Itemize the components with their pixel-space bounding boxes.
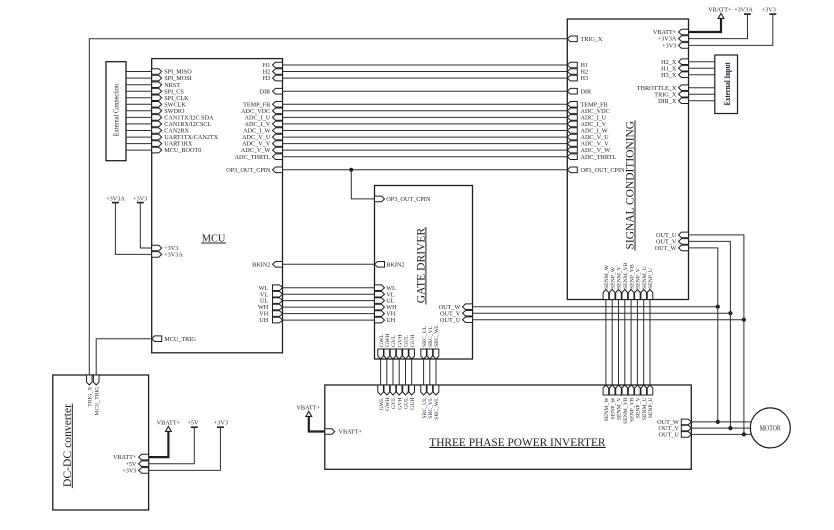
wire OUT_V (gate driver to node) — [473, 312, 731, 314]
pin +3V3 (SC) — [662, 43, 688, 50]
pin SENM_V (SC) — [616, 265, 623, 299]
svg-text:UH: UH — [386, 317, 395, 324]
svg-text:OUT_U: OUT_U — [659, 432, 680, 439]
wire ADC_V_W — [283, 149, 568, 151]
wire OUT_W (gate driver to node) — [473, 306, 718, 308]
svg-text:+3V3: +3V3 — [122, 468, 136, 475]
block DC-DC converter — [53, 375, 149, 510]
pin SENM_VB (INVERTER) — [622, 385, 629, 424]
pin VL (GATE DRIVER) — [375, 291, 395, 298]
wire SRC_VL — [429, 359, 431, 385]
pin THROTTLE_X (SC) — [637, 85, 689, 92]
svg-text:SRC_VL: SRC_VL — [428, 325, 434, 347]
pin MCU_BOOT0 (MCU) — [152, 147, 202, 154]
wire TRIG_X — [89, 39, 567, 375]
pin UART1RX (MCU) — [152, 141, 193, 148]
pin GWL (GATE DRIVER) — [378, 334, 385, 359]
pin WH (MCU) — [258, 304, 283, 311]
svg-text:SENP_W: SENP_W — [610, 397, 616, 420]
svg-text:SENM_VB: SENM_VB — [623, 262, 629, 289]
svg-text:ADC_THRTL: ADC_THRTL — [581, 154, 617, 161]
pin GVL (INVERTER) — [390, 385, 397, 409]
pin SENM_W (SC) — [603, 264, 610, 299]
svg-text:SENP_U: SENP_U — [648, 268, 654, 289]
pin VH (MCU) — [259, 311, 282, 318]
svg-text:+3V3A: +3V3A — [734, 6, 753, 13]
junction OUT_U lower — [742, 432, 746, 436]
pin SENM_VB (SC) — [622, 262, 629, 299]
svg-text:MCU_TRIG: MCU_TRIG — [94, 387, 100, 416]
svg-text:BKIN2: BKIN2 — [252, 261, 270, 268]
svg-text:GWL: GWL — [379, 334, 385, 347]
pin SPI_MOSI (MCU) — [152, 75, 192, 82]
svg-text:GVH: GVH — [397, 335, 403, 347]
svg-text:OUT_W: OUT_W — [655, 245, 677, 252]
svg-text:TRIG_X: TRIG_X — [581, 36, 604, 43]
pin UL (MCU) — [260, 298, 283, 305]
pin TRIG_X (SC) — [654, 91, 688, 98]
pin H1_X (SC) — [661, 65, 688, 72]
wire OUT_V (vertical to motor net) — [729, 313, 731, 428]
pin GWH (GATE DRIVER) — [384, 333, 391, 359]
pin GWH (INVERTER) — [384, 385, 391, 411]
pin ADC_VDC (SC) — [567, 108, 609, 115]
wire TRIG_X — [689, 93, 715, 95]
pin UH (MCU) — [259, 317, 282, 324]
pin OUT_W (INVERTER) — [657, 419, 691, 426]
pin SENP_V (SC) — [635, 267, 642, 299]
svg-text:H3: H3 — [263, 75, 271, 82]
pin DIR (MCU) — [260, 88, 283, 95]
pin WH (GATE DRIVER) — [375, 304, 398, 311]
svg-text:VBATT+: VBATT+ — [708, 6, 732, 13]
junction OUT_V lower — [728, 426, 732, 430]
pin TRIG_X (SC) — [567, 36, 603, 43]
pin SPI_MISO (MCU) — [152, 69, 193, 76]
pin SRC_UL (GATE DRIVER) — [421, 325, 428, 359]
pin ADC_I_U (MCU) — [245, 115, 283, 122]
pin H3 (SC) — [567, 75, 588, 82]
power VBATT+ (top) — [689, 6, 733, 32]
wire H2 — [283, 71, 568, 73]
pin ADC_I_W (MCU) — [243, 128, 282, 135]
pin SENP_W (SC) — [609, 266, 616, 299]
svg-text:MCU_BOOT0: MCU_BOOT0 — [164, 147, 201, 154]
wire UART1TX/CAN2TX — [126, 136, 152, 138]
wire ADC_VDC — [283, 110, 568, 112]
svg-text:UH: UH — [259, 317, 268, 324]
svg-text:External Connection: External Connection — [113, 83, 120, 136]
wire ADC_V_V — [283, 143, 568, 145]
svg-text:+3V3: +3V3 — [762, 6, 776, 13]
wire SENP_VB — [630, 300, 632, 386]
junction OUT_V upper — [728, 311, 732, 315]
wire SPI_CS — [126, 90, 152, 92]
pin DIR_X (SC) — [658, 98, 688, 105]
wire ADC_I_U — [283, 116, 568, 118]
pin ADC_V_V (MCU) — [242, 141, 282, 148]
wire H2_X — [689, 61, 715, 63]
svg-text:OP3_OUT_CPIN: OP3_OUT_CPIN — [226, 167, 271, 174]
pin ADC_V_U (MCU) — [242, 134, 282, 141]
wire TEMP_FB — [283, 103, 568, 105]
pin TEMP_FB (MCU) — [243, 101, 282, 108]
pin ADC_V_U (SC) — [567, 134, 609, 141]
junction OUT_U upper — [742, 318, 746, 322]
svg-text:SENP_W: SENP_W — [610, 266, 616, 289]
pin SENM_V (INVERTER) — [616, 385, 623, 420]
wire GWH — [386, 359, 388, 385]
svg-text:H3_X: H3_X — [661, 72, 677, 79]
svg-text:SENP_VB: SENP_VB — [629, 397, 635, 422]
svg-text:GUL: GUL — [404, 397, 410, 409]
pin H1 (SC) — [567, 62, 588, 69]
pin GUL (GATE DRIVER) — [403, 335, 410, 359]
pin ADC_THRTL (SC) — [567, 154, 616, 161]
wire SWCLK — [126, 103, 152, 105]
pin SRC_VL (GATE DRIVER) — [427, 325, 434, 359]
svg-text:GUL: GUL — [404, 335, 410, 347]
block THREE PHASE POWER INVERTER — [325, 385, 692, 469]
svg-text:SRC_WL: SRC_WL — [434, 397, 440, 420]
power +3V3 rail (MCU) — [133, 195, 152, 248]
wire SRC_WL — [435, 359, 437, 385]
svg-text:TRIG_X: TRIG_X — [88, 387, 94, 407]
pin ADC_I_V (MCU) — [245, 121, 283, 128]
pin SENM_W (INVERTER) — [603, 385, 610, 421]
svg-text:GVH: GVH — [397, 397, 403, 409]
pin +5V (DC-DC) — [125, 461, 148, 468]
svg-text:SENM_W: SENM_W — [604, 264, 610, 289]
pin GUL (INVERTER) — [403, 385, 410, 409]
block SIGNAL CONDITIONING — [567, 19, 688, 300]
pin SPI_CS (MCU) — [152, 88, 185, 95]
svg-text:DIR: DIR — [260, 88, 272, 95]
wire GUL — [405, 359, 407, 385]
wire WH — [283, 306, 375, 308]
pin CAN2RX (MCU) — [152, 128, 190, 135]
wire SRC_UL — [423, 359, 425, 385]
svg-text:DIR_X: DIR_X — [658, 98, 677, 105]
svg-text:MCU_TRIG: MCU_TRIG — [164, 336, 196, 343]
wire ADC_THRTL — [283, 156, 568, 158]
wire H1 — [283, 64, 568, 66]
svg-text:SENM_VB: SENM_VB — [623, 397, 629, 424]
pin OUT_V (GATE DRIVER) — [440, 310, 472, 317]
pin OUT_U (INVERTER) — [659, 432, 692, 439]
pin VBATT+ (SC) — [653, 29, 689, 36]
wire ADC_I_W — [283, 130, 568, 132]
power +3V3 (top) — [689, 6, 777, 45]
wire SWDIO — [126, 110, 152, 112]
pin +3V3A (MCU) — [152, 252, 184, 259]
power +5V (DC-DC) — [149, 419, 199, 463]
pin H2_X (SC) — [661, 59, 688, 66]
pin H3 (MCU) — [263, 75, 283, 82]
pin VL (MCU) — [260, 291, 283, 298]
power +3V3A (top) — [689, 6, 754, 38]
pin +3V3 (DC-DC) — [122, 468, 148, 475]
pin SWDIO (MCU) — [152, 108, 185, 115]
wire CAN1RX/I2CSCL — [126, 123, 152, 125]
wire SENM_W — [605, 300, 607, 386]
svg-text:OP3_OUT_CPIN: OP3_OUT_CPIN — [386, 196, 431, 203]
svg-text:+3V3: +3V3 — [214, 419, 228, 426]
pin ADC_I_V (SC) — [567, 121, 607, 128]
junction OUT_W lower — [716, 420, 720, 424]
pin NRST (MCU) — [152, 82, 181, 89]
pin OP3_OUT_CPIN (GATE DRIVER) — [375, 196, 431, 203]
wire OUT_W (SC to node) — [689, 248, 718, 307]
svg-text:+3V3: +3V3 — [133, 195, 147, 202]
wire SENM_U — [643, 300, 645, 386]
junction OUT_W upper — [716, 305, 720, 309]
wire H1_X — [689, 67, 715, 69]
wire DIR_X — [689, 100, 715, 102]
pin H2 (MCU) — [263, 69, 283, 76]
svg-text:SRC_VL: SRC_VL — [428, 397, 434, 419]
pin SENP_VB (SC) — [628, 264, 635, 299]
pin ADC_V_W (MCU) — [241, 147, 283, 154]
pin TEMP_FB (SC) — [567, 101, 607, 108]
wire SPI_MISO — [126, 71, 152, 73]
pin UL (GATE DRIVER) — [375, 298, 395, 305]
pin SENM_U (INVERTER) — [641, 385, 648, 420]
pin SWCLK (MCU) — [152, 101, 187, 108]
svg-text:SENM_V: SENM_V — [617, 397, 623, 421]
wire DIR — [283, 90, 568, 92]
wire MCU_BOOT0 — [126, 149, 152, 151]
wire CAN2RX — [126, 130, 152, 132]
pin UH (GATE DRIVER) — [375, 317, 396, 324]
pin GUH (INVERTER) — [409, 385, 416, 410]
pin OUT_V (INVERTER) — [659, 425, 692, 432]
pin GVL (GATE DRIVER) — [390, 335, 397, 359]
wire GVL — [392, 359, 394, 385]
pin TRIG_X (DC-DC) — [87, 375, 94, 407]
svg-text:VBATT+: VBATT+ — [296, 404, 320, 411]
pin ADC_THRTL (MCU) — [235, 154, 283, 161]
pin VBATT+ (INVERTER) — [325, 429, 363, 436]
wire THROTTLE_X — [689, 87, 715, 89]
svg-text:MOTOR: MOTOR — [760, 424, 781, 432]
wire H3 — [283, 77, 568, 79]
pin ADC_I_W (SC) — [567, 128, 608, 135]
pin CAN1RX/I2CSCL (MCU) — [152, 121, 212, 128]
wire SENM_V — [618, 300, 620, 386]
wire OUT_U (inverter to motor) — [691, 433, 751, 435]
pin +3V3A (SC) — [658, 36, 689, 43]
wire GUH — [411, 359, 413, 385]
wire OP3_OUT_CPIN — [283, 169, 568, 171]
svg-text:SENP_VB: SENP_VB — [629, 264, 635, 289]
pin OUT_W (GATE DRIVER) — [439, 304, 473, 311]
pin DIR (SC) — [567, 88, 592, 95]
wire NRST — [126, 84, 152, 86]
pin MCU_TRIG (DC-DC) — [93, 375, 100, 416]
svg-text:BKIN2: BKIN2 — [386, 261, 404, 268]
pin H2 (SC) — [567, 69, 588, 76]
svg-text:ADC_THRTL: ADC_THRTL — [235, 154, 271, 161]
pin SENP_V (INVERTER) — [635, 385, 642, 418]
wire BKIN2 — [283, 263, 375, 265]
svg-text:SENM_W: SENM_W — [604, 397, 610, 422]
block External Connection — [106, 62, 126, 161]
wire OUT_U (vertical to motor net) — [743, 320, 745, 435]
wire MCU_TRIG — [96, 339, 152, 375]
wire UART1RX — [126, 143, 152, 145]
wire OUT_V (SC to node) — [689, 241, 731, 313]
block MCU — [152, 59, 283, 353]
svg-text:DC-DC converter: DC-DC converter — [60, 404, 74, 487]
svg-text:DIR: DIR — [581, 88, 593, 95]
svg-text:SENP_V: SENP_V — [636, 397, 642, 419]
junction OP3_OUT_CPIN — [349, 168, 353, 172]
svg-text:GWH: GWH — [385, 397, 391, 411]
motor M1 — [750, 408, 790, 448]
wire SENP_W — [611, 300, 613, 386]
svg-text:SRC_WL: SRC_WL — [434, 324, 440, 347]
pin SRC_UL (INVERTER) — [421, 385, 428, 419]
svg-text:SENP_V: SENP_V — [636, 267, 642, 289]
svg-text:SRC_UL: SRC_UL — [422, 397, 428, 419]
pin SENP_W (INVERTER) — [609, 385, 616, 420]
svg-text:GVL: GVL — [391, 335, 397, 347]
wire WL — [283, 287, 375, 289]
wire OUT_W (vertical to motor net) — [717, 307, 719, 422]
wire ADC_V_U — [283, 136, 568, 138]
pin UART1TX/CAN2TX (MCU) — [152, 134, 219, 141]
svg-text:SRC_UL: SRC_UL — [422, 325, 428, 347]
svg-text:OP3_OUT_CPIN: OP3_OUT_CPIN — [581, 167, 626, 174]
svg-text:GVL: GVL — [391, 397, 397, 409]
svg-text:External Input: External Input — [723, 62, 732, 105]
wire SENP_U — [649, 300, 651, 386]
pin VBATT+ (DC-DC) — [113, 454, 149, 461]
pin ADC_I_U (SC) — [567, 115, 607, 122]
pin SPI_CLK (MCU) — [152, 95, 189, 102]
svg-text:SENP_U: SENP_U — [648, 397, 654, 418]
wire H3_X — [689, 74, 715, 76]
wire GWL — [380, 359, 382, 385]
pin SRC_WL (INVERTER) — [433, 385, 440, 420]
pin H3_X (SC) — [661, 72, 688, 79]
svg-text:H3: H3 — [581, 75, 589, 82]
pin SENP_VB (INVERTER) — [628, 385, 635, 422]
svg-text:VBATT+: VBATT+ — [339, 429, 363, 436]
pin SENM_U (SC) — [641, 266, 648, 299]
power +3V3A rail (MCU) — [106, 195, 152, 254]
svg-text:THREE PHASE POWER INVERTER: THREE PHASE POWER INVERTER — [429, 435, 605, 449]
wire OP3_OUT_CPIN branch — [351, 170, 374, 199]
pin OUT_V (SC) — [656, 239, 688, 246]
power VBATT+ (inverter) — [296, 404, 324, 431]
pin GVH (INVERTER) — [396, 385, 403, 410]
wire OUT_U (SC to node) — [689, 235, 744, 320]
wire OUT_V (inverter to motor) — [691, 427, 751, 429]
pin OUT_U (SC) — [656, 232, 688, 239]
wire SENM_VB — [624, 300, 626, 386]
pin VH (GATE DRIVER) — [375, 311, 396, 318]
block GATE DRIVER — [375, 186, 473, 360]
pin BKIN2 (GATE DRIVER) — [375, 261, 405, 268]
wire SPI_CLK — [126, 97, 152, 99]
svg-text:GWL: GWL — [379, 397, 385, 410]
svg-text:+3V3A: +3V3A — [164, 252, 183, 259]
svg-text:+3V3: +3V3 — [662, 43, 676, 50]
pin GVH (GATE DRIVER) — [396, 335, 403, 359]
svg-text:OUT_U: OUT_U — [440, 317, 461, 324]
pin SRC_WL (GATE DRIVER) — [433, 324, 440, 359]
pin H1 (MCU) — [263, 62, 283, 69]
pin GWL (INVERTER) — [378, 385, 385, 410]
pin ADC_VDC (MCU) — [241, 108, 282, 115]
wire VL — [283, 293, 375, 295]
pin CAN1TX/I2C SDA (MCU) — [152, 115, 214, 122]
wire OUT_W (inverter to motor) — [691, 421, 751, 423]
svg-text:GWH: GWH — [385, 333, 391, 347]
svg-text:GUH: GUH — [410, 397, 416, 409]
svg-text:SENM_V: SENM_V — [617, 265, 623, 289]
wire CAN1TX/I2C SDA — [126, 116, 152, 118]
pin MCU_TRIG (MCU) — [152, 336, 197, 343]
pin SRC_VL (INVERTER) — [427, 385, 434, 419]
pin OUT_U (GATE DRIVER) — [440, 317, 472, 324]
wire UH — [283, 319, 375, 321]
pin OP3_OUT_CPIN (MCU) — [226, 167, 282, 174]
wire OUT_U (gate driver to node) — [473, 319, 744, 321]
block External Input — [715, 55, 738, 114]
pin ADC_V_W (SC) — [567, 147, 610, 154]
pin BKIN2 (MCU) — [252, 261, 282, 268]
power VBATT+ (DC-DC) — [149, 419, 181, 457]
svg-text:+3V3A: +3V3A — [106, 195, 125, 202]
pin WL (GATE DRIVER) — [375, 285, 397, 292]
wire SPI_MOSI — [126, 77, 152, 79]
pin ADC_V_V (SC) — [567, 141, 609, 148]
svg-text:SENM_U: SENM_U — [642, 266, 648, 289]
pin GUH (GATE DRIVER) — [409, 335, 416, 359]
power +3V3 (DC-DC) — [149, 419, 228, 470]
wire SENP_V — [636, 300, 638, 386]
pin WL (MCU) — [259, 285, 283, 292]
svg-text:GUH: GUH — [410, 335, 416, 347]
wire ADC_I_V — [283, 123, 568, 125]
pin OP3_OUT_CPIN (SC) — [567, 167, 625, 174]
svg-text:VBATT+: VBATT+ — [157, 419, 181, 426]
wire GVH — [398, 359, 400, 385]
pin SENP_U (SC) — [647, 268, 654, 299]
wire VH — [283, 313, 375, 315]
wire UL — [283, 300, 375, 302]
svg-text:SENM_U: SENM_U — [642, 397, 648, 420]
pin SENP_U (INVERTER) — [647, 385, 654, 418]
svg-text:+5V: +5V — [187, 419, 199, 426]
pin OUT_W (SC) — [655, 245, 689, 252]
pin +3V3 (MCU) — [152, 245, 179, 252]
